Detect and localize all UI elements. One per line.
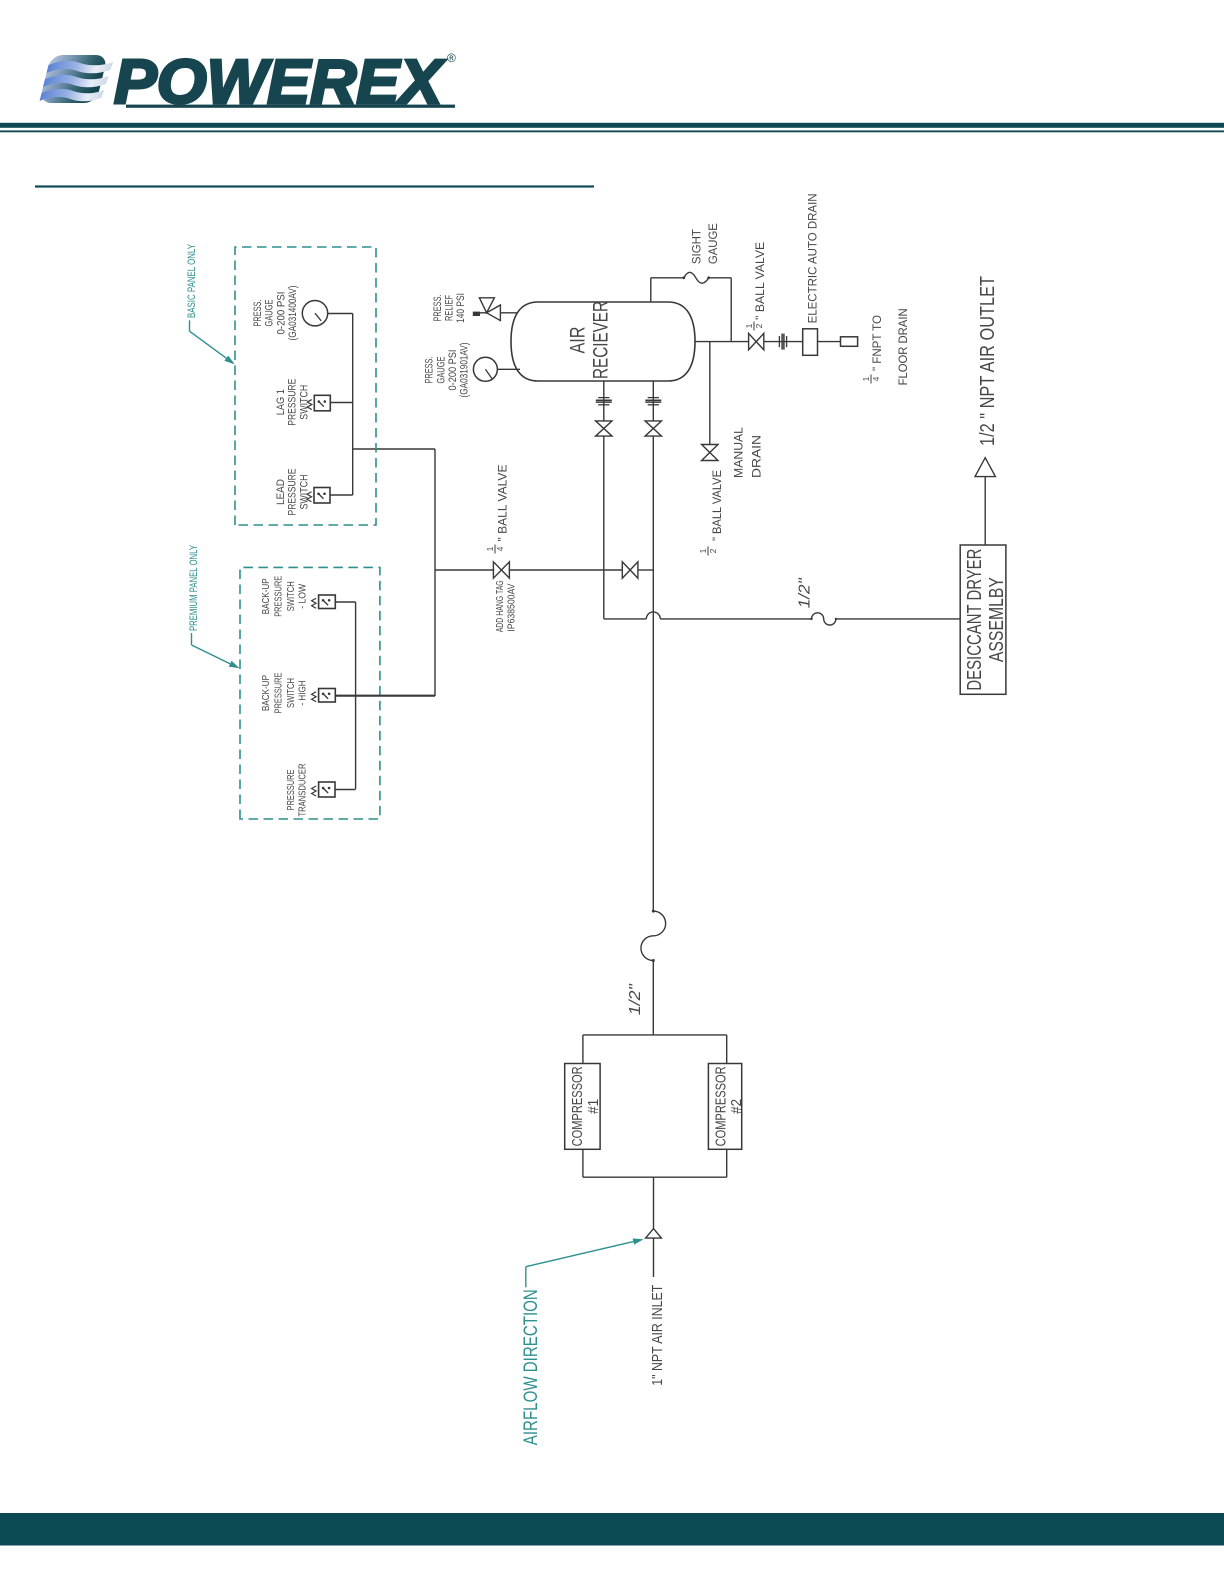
svg-text:#1: #1 [585,1099,602,1114]
svg-text:1: 1 [698,548,708,553]
svg-text:BASIC PANEL ONLY: BASIC PANEL ONLY [186,244,198,318]
svg-text:LEAD: LEAD [275,479,287,505]
svg-text:IP638500AV: IP638500AV [507,583,518,631]
svg-text:PRESS.: PRESS. [432,295,444,322]
svg-text:BACK-UP: BACK-UP [260,675,272,711]
svg-text:LAG 1: LAG 1 [275,389,287,415]
svg-text:GAUGE: GAUGE [436,357,448,384]
svg-text:2: 2 [708,548,718,553]
svg-text:GAUGE: GAUGE [264,300,276,327]
svg-text:1: 1 [744,323,754,328]
svg-text:SWITCH: SWITCH [298,474,310,509]
svg-text:1: 1 [861,376,871,381]
svg-text:COMPRESSOR: COMPRESSOR [569,1066,586,1146]
svg-text:#2: #2 [728,1099,745,1114]
svg-text:GAUGE: GAUGE [708,223,720,264]
svg-text:4: 4 [495,546,505,551]
svg-text:PRESSURE: PRESSURE [287,469,299,516]
svg-text:RELIEF: RELIEF [443,295,455,321]
svg-text:" BALL VALVE: " BALL VALVE [712,470,724,541]
svg-text:COMPRESSOR: COMPRESSOR [712,1066,729,1146]
svg-text:SIGHT: SIGHT [691,229,703,264]
svg-text:PREMIUM PANEL ONLY: PREMIUM PANEL ONLY [188,545,200,631]
svg-text:AIR: AIR [567,327,590,354]
svg-text:SWITCH: SWITCH [285,581,297,611]
svg-text:MANUAL: MANUAL [734,426,746,478]
svg-text:DESICCANT DRYER: DESICCANT DRYER [964,549,986,691]
svg-text:PRESSURE: PRESSURE [272,673,284,714]
svg-text:(GA031901AV): (GA031901AV) [458,343,470,398]
svg-text:SWITCH: SWITCH [285,678,297,708]
svg-text:4: 4 [871,376,881,381]
svg-text:- HIGH: - HIGH [297,681,309,706]
svg-text:0-200 PSI: 0-200 PSI [276,292,288,335]
svg-text:AIRFLOW DIRECTION: AIRFLOW DIRECTION [521,1289,542,1445]
svg-text:ADD HANG TAG: ADD HANG TAG [495,580,506,632]
svg-text:PRESSURE: PRESSURE [285,770,297,811]
svg-text:1/2 " NPT AIR OUTLET: 1/2 " NPT AIR OUTLET [977,276,999,446]
svg-text:SWITCH: SWITCH [298,385,310,420]
svg-text:140 PSI: 140 PSI [455,293,467,323]
svg-text:1/2": 1/2" [797,577,814,608]
svg-text:PRESS.: PRESS. [424,357,436,384]
svg-text:DRAIN: DRAIN [751,435,763,478]
svg-text:1/2": 1/2" [627,983,644,1015]
svg-text:" BALL VALVE: " BALL VALVE [755,241,767,319]
svg-text:PRESSURE: PRESSURE [272,576,284,617]
svg-text:PRESSURE: PRESSURE [287,379,299,426]
svg-text:TRANSDUCER: TRANSDUCER [297,763,309,816]
svg-text:ASSEMLBY: ASSEMLBY [986,577,1008,662]
svg-text:®: ® [447,51,456,65]
svg-text:2: 2 [754,323,764,328]
svg-text:RECIEVER: RECIEVER [590,301,613,379]
svg-text:" BALL VALVE: " BALL VALVE [498,464,510,541]
svg-text:FLOOR DRAIN: FLOOR DRAIN [896,308,910,385]
svg-text:BACK-UP: BACK-UP [260,578,272,614]
svg-text:(GA031400AV): (GA031400AV) [287,286,299,341]
svg-text:1: 1 [485,546,495,551]
svg-text:0-200 PSI: 0-200 PSI [447,350,459,391]
svg-text:" FNPT TO: " FNPT TO [870,315,884,371]
svg-text:- LOW: - LOW [297,584,309,609]
svg-text:ELECTRIC AUTO DRAIN: ELECTRIC AUTO DRAIN [806,193,820,323]
svg-text:PRESS.: PRESS. [252,300,264,327]
svg-text:1" NPT AIR INLET: 1" NPT AIR INLET [649,1285,666,1386]
